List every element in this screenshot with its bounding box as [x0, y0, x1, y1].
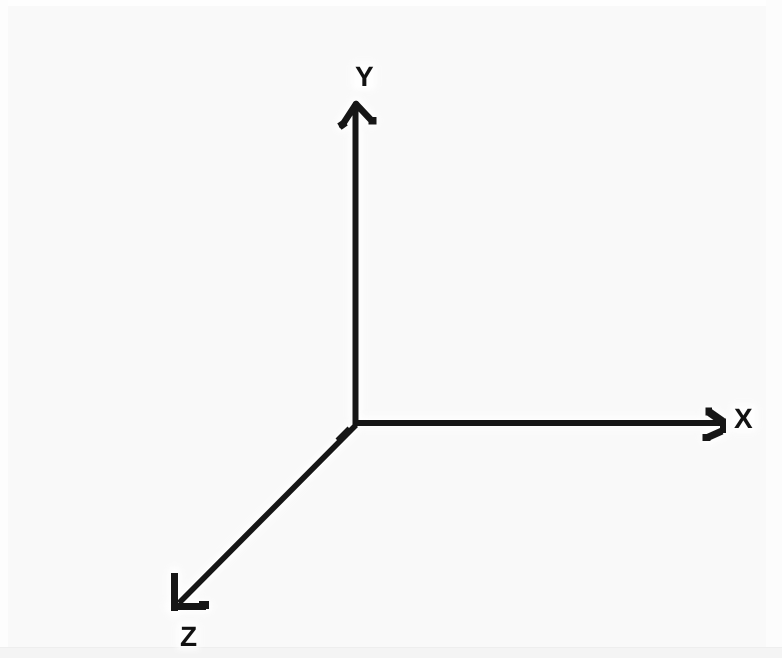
- svg-text:Z: Z: [180, 621, 197, 652]
- svg-text:X: X: [734, 403, 753, 434]
- svg-text:Y: Y: [355, 61, 374, 92]
